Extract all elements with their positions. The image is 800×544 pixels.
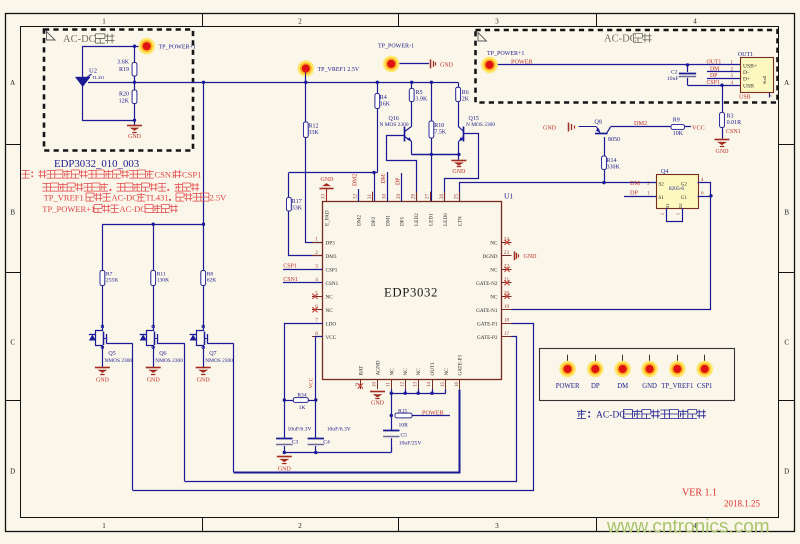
- svg-text:DP1: DP1: [400, 216, 406, 226]
- svg-text:GND: GND: [197, 378, 211, 384]
- svg-text:GND: GND: [440, 62, 454, 68]
- svg-text:GATE-N2: GATE-N2: [476, 281, 498, 287]
- svg-text:TP_POWER+1: TP_POWER+1: [159, 45, 196, 51]
- svg-text:10K: 10K: [673, 131, 684, 137]
- svg-text:D-: D-: [743, 70, 749, 76]
- svg-text:CSN1: CSN1: [155, 169, 176, 179]
- svg-text:TP_POWER+1: TP_POWER+1: [487, 51, 524, 57]
- svg-text:DM2: DM2: [634, 120, 647, 127]
- svg-text:R19: R19: [119, 67, 129, 73]
- svg-text:DP2: DP2: [371, 216, 377, 226]
- svg-text:5: 5: [676, 213, 681, 215]
- svg-text:NMOS 2300: NMOS 2300: [104, 358, 132, 364]
- svg-text:30: 30: [382, 194, 388, 200]
- svg-text:N MOS 2300: N MOS 2300: [380, 122, 409, 128]
- svg-text:0.01R: 0.01R: [727, 120, 742, 126]
- svg-text:10: 10: [372, 382, 378, 388]
- svg-text:1: 1: [102, 522, 106, 530]
- svg-text:U2: U2: [89, 68, 97, 75]
- svg-text:USB: USB: [739, 95, 751, 101]
- svg-text:31: 31: [367, 194, 373, 200]
- svg-text:CSP1: CSP1: [283, 264, 297, 270]
- svg-text:VCC: VCC: [308, 377, 314, 388]
- svg-text:E_PAD: E_PAD: [325, 210, 331, 226]
- svg-text:33K: 33K: [309, 130, 320, 136]
- svg-text:N MOS 2300: N MOS 2300: [466, 122, 495, 128]
- svg-text:Q7: Q7: [209, 351, 216, 357]
- svg-text:AC-DC: AC-DC: [112, 192, 139, 202]
- svg-text:C: C: [784, 339, 789, 347]
- svg-text:28: 28: [410, 194, 416, 200]
- svg-text:TL431: TL431: [92, 75, 105, 80]
- svg-text:D: D: [10, 468, 15, 476]
- svg-text:D1: D1: [665, 203, 670, 208]
- svg-text:R9: R9: [673, 118, 680, 124]
- svg-text:POWER: POWER: [556, 383, 580, 390]
- svg-text:OUT1: OUT1: [430, 362, 436, 376]
- svg-text:VCC: VCC: [692, 124, 705, 131]
- svg-text:AC-DC: AC-DC: [120, 204, 147, 214]
- svg-text:GND: GND: [524, 254, 538, 260]
- svg-text:8050: 8050: [608, 137, 620, 143]
- svg-text:255K: 255K: [106, 278, 118, 284]
- svg-text:2: 2: [315, 250, 318, 256]
- svg-text:DP: DP: [591, 383, 600, 390]
- svg-text:1: 1: [102, 17, 106, 25]
- svg-text:CSN1: CSN1: [326, 281, 339, 287]
- svg-text:R12: R12: [309, 124, 319, 130]
- svg-text:BAT: BAT: [358, 365, 364, 376]
- svg-text:15: 15: [440, 382, 446, 388]
- svg-text:VER 1.1: VER 1.1: [682, 488, 717, 499]
- svg-text:POWER: POWER: [511, 58, 534, 65]
- svg-text:R14: R14: [607, 158, 617, 164]
- svg-text:GND: GND: [147, 378, 161, 384]
- svg-text:NC: NC: [326, 308, 334, 314]
- svg-text:130K: 130K: [157, 278, 169, 284]
- svg-text:DGND: DGND: [483, 254, 498, 260]
- svg-text:10uF/6.3V: 10uF/6.3V: [327, 426, 351, 432]
- svg-text:R6: R6: [462, 90, 469, 96]
- svg-text:GND: GND: [716, 149, 730, 155]
- svg-text:DM2: DM2: [353, 174, 359, 186]
- svg-text:TP_VREF1: TP_VREF1: [661, 383, 693, 390]
- svg-text:OUT1: OUT1: [738, 52, 753, 58]
- svg-text:D+: D+: [743, 77, 750, 83]
- svg-text:TP_POWER+1: TP_POWER+1: [42, 204, 95, 214]
- svg-text:10uF/6.3V: 10uF/6.3V: [288, 426, 312, 432]
- svg-text:3.9K: 3.9K: [416, 97, 429, 103]
- svg-text:S2: S2: [659, 182, 665, 187]
- svg-text:GND: GND: [321, 177, 335, 183]
- svg-text:25: 25: [454, 194, 460, 200]
- svg-text:27: 27: [425, 194, 431, 200]
- svg-text:www.cntronics.com: www.cntronics.com: [606, 517, 770, 538]
- svg-text:EDP3032_010_003: EDP3032_010_003: [54, 158, 139, 170]
- svg-text:AC-DC: AC-DC: [604, 34, 637, 45]
- svg-text:13: 13: [412, 382, 418, 388]
- svg-text:CSN1: CSN1: [726, 129, 741, 135]
- svg-text:TP_VREF1 2.5V: TP_VREF1 2.5V: [318, 67, 360, 73]
- svg-text:CSP1: CSP1: [326, 267, 338, 273]
- svg-text:5: 5: [768, 95, 773, 97]
- svg-text:LED0: LED0: [443, 213, 449, 226]
- svg-text:EDP3032: EDP3032: [384, 286, 438, 300]
- svg-text:R17: R17: [292, 199, 302, 205]
- svg-text:LDO: LDO: [326, 321, 337, 327]
- svg-text:S1: S1: [659, 196, 665, 201]
- svg-text:16K: 16K: [380, 102, 391, 108]
- svg-text:32: 32: [353, 194, 359, 200]
- svg-text:DM: DM: [617, 383, 628, 390]
- svg-text:DM3: DM3: [326, 254, 337, 260]
- svg-text:NC: NC: [326, 294, 334, 300]
- svg-text:GND: GND: [278, 467, 292, 473]
- svg-text:NMOS 2300: NMOS 2300: [155, 358, 183, 364]
- svg-text:GND: GND: [543, 125, 557, 131]
- svg-text:18: 18: [504, 317, 510, 323]
- svg-text:7.5K: 7.5K: [434, 130, 447, 136]
- svg-text:4: 4: [693, 17, 697, 25]
- svg-text:R20: R20: [119, 92, 129, 98]
- svg-text:LTN: LTN: [457, 216, 463, 226]
- svg-text:DM1: DM1: [385, 215, 391, 226]
- svg-text:R4: R4: [380, 95, 387, 101]
- svg-text:B: B: [784, 209, 789, 217]
- svg-text:8205-6: 8205-6: [669, 186, 685, 192]
- svg-text:Q5: Q5: [108, 351, 115, 357]
- svg-text:7: 7: [315, 317, 318, 323]
- svg-text:GATE-N1: GATE-N1: [476, 308, 498, 314]
- svg-text:11: 11: [386, 382, 392, 387]
- svg-text:NC: NC: [403, 368, 409, 376]
- svg-text:NC: NC: [490, 240, 498, 246]
- svg-text:GATE-P3: GATE-P3: [458, 355, 464, 376]
- svg-text:DM: DM: [630, 180, 640, 187]
- svg-text:R15: R15: [398, 408, 408, 414]
- svg-text:C4: C4: [323, 440, 330, 446]
- svg-text:CSP1: CSP1: [707, 80, 720, 86]
- svg-text:NMOS 2300: NMOS 2300: [205, 358, 233, 364]
- svg-text:GATE-P2: GATE-P2: [477, 335, 498, 341]
- svg-text:R3: R3: [727, 114, 734, 120]
- svg-text:DM: DM: [710, 67, 719, 73]
- svg-text:2018.1.25: 2018.1.25: [724, 499, 761, 509]
- svg-text:CSN1: CSN1: [283, 277, 298, 283]
- svg-text:33: 33: [321, 194, 327, 200]
- svg-text:2K: 2K: [462, 97, 470, 103]
- svg-text:DP3: DP3: [326, 240, 336, 246]
- svg-text:DP: DP: [396, 178, 402, 185]
- svg-text:23: 23: [504, 250, 510, 256]
- svg-text:CSP1: CSP1: [697, 383, 713, 390]
- svg-text:Q6: Q6: [159, 351, 166, 357]
- svg-text:USB+: USB+: [743, 63, 757, 69]
- svg-text:D: D: [784, 468, 789, 476]
- svg-text:CSP1: CSP1: [182, 169, 201, 179]
- svg-text:1K: 1K: [299, 405, 306, 411]
- svg-text:Stall: Stall: [762, 75, 767, 84]
- svg-text:17: 17: [504, 331, 510, 337]
- svg-text:3: 3: [495, 17, 499, 25]
- svg-text:C5: C5: [401, 433, 408, 439]
- svg-text:TP_POWER-1: TP_POWER-1: [378, 44, 414, 50]
- svg-text:2: 2: [298, 17, 302, 25]
- svg-text:GND: GND: [96, 378, 110, 384]
- svg-text:19: 19: [504, 304, 510, 310]
- svg-text:NC: NC: [416, 368, 422, 376]
- svg-text:LED1: LED1: [429, 213, 435, 226]
- svg-text:14: 14: [426, 382, 432, 388]
- svg-text:10uF: 10uF: [667, 76, 679, 82]
- svg-text:VCC: VCC: [326, 335, 337, 341]
- svg-text:A: A: [10, 79, 15, 87]
- svg-text:10R: 10R: [399, 423, 409, 429]
- svg-text:330K: 330K: [607, 165, 621, 171]
- svg-text:2: 2: [660, 213, 665, 215]
- svg-text:DP: DP: [630, 190, 638, 197]
- svg-text:AC-DC: AC-DC: [63, 34, 96, 45]
- svg-text:NC: NC: [490, 267, 498, 273]
- svg-text:U1: U1: [504, 192, 513, 201]
- svg-text:NC: NC: [444, 368, 450, 376]
- svg-text:R5: R5: [416, 90, 423, 96]
- svg-text:GND: GND: [642, 383, 657, 390]
- svg-text:62K: 62K: [207, 278, 217, 284]
- svg-text:AC-DC: AC-DC: [596, 410, 626, 420]
- svg-text:TL431: TL431: [146, 192, 169, 202]
- svg-text:AGND: AGND: [376, 360, 382, 375]
- svg-text:10uF/25V: 10uF/25V: [399, 440, 422, 446]
- svg-text:OUT1: OUT1: [707, 60, 722, 66]
- svg-text:DP: DP: [710, 73, 717, 79]
- svg-text:GND: GND: [452, 169, 466, 175]
- svg-text:Q4: Q4: [661, 169, 668, 175]
- svg-text:GND: GND: [128, 134, 142, 140]
- svg-text:3: 3: [315, 263, 318, 269]
- svg-text:DM: DM: [381, 174, 387, 183]
- svg-text:C: C: [10, 339, 15, 347]
- svg-text:12: 12: [399, 382, 405, 388]
- svg-text:16: 16: [454, 382, 460, 388]
- svg-text:DM2: DM2: [357, 215, 363, 226]
- svg-text:2.5V: 2.5V: [210, 192, 228, 202]
- svg-text:POWER: POWER: [422, 409, 445, 416]
- svg-text:3.6K: 3.6K: [117, 59, 130, 65]
- svg-text:3: 3: [495, 522, 499, 530]
- svg-text:USB: USB: [743, 83, 754, 89]
- svg-text:NC: NC: [490, 294, 498, 300]
- svg-text:C2: C2: [671, 70, 678, 76]
- svg-text:33K: 33K: [292, 206, 303, 212]
- svg-text:2: 2: [298, 522, 302, 530]
- svg-text:R34: R34: [297, 392, 307, 398]
- svg-text:TP_VREF1: TP_VREF1: [44, 192, 84, 202]
- svg-text:GATE-P1: GATE-P1: [477, 321, 498, 327]
- svg-text:C3: C3: [292, 440, 299, 446]
- svg-text:R10: R10: [434, 123, 444, 129]
- svg-text:A: A: [784, 79, 789, 87]
- svg-text:LED2: LED2: [414, 213, 420, 226]
- svg-text:1: 1: [315, 236, 318, 242]
- svg-text:Q8: Q8: [595, 120, 602, 126]
- svg-text:26: 26: [439, 194, 445, 200]
- svg-text:NC: NC: [389, 368, 395, 376]
- svg-text:GND: GND: [371, 400, 385, 406]
- svg-text:B: B: [10, 209, 15, 217]
- svg-text:12K: 12K: [119, 98, 130, 104]
- svg-text:G1: G1: [681, 196, 688, 201]
- svg-text:D2: D2: [678, 203, 683, 208]
